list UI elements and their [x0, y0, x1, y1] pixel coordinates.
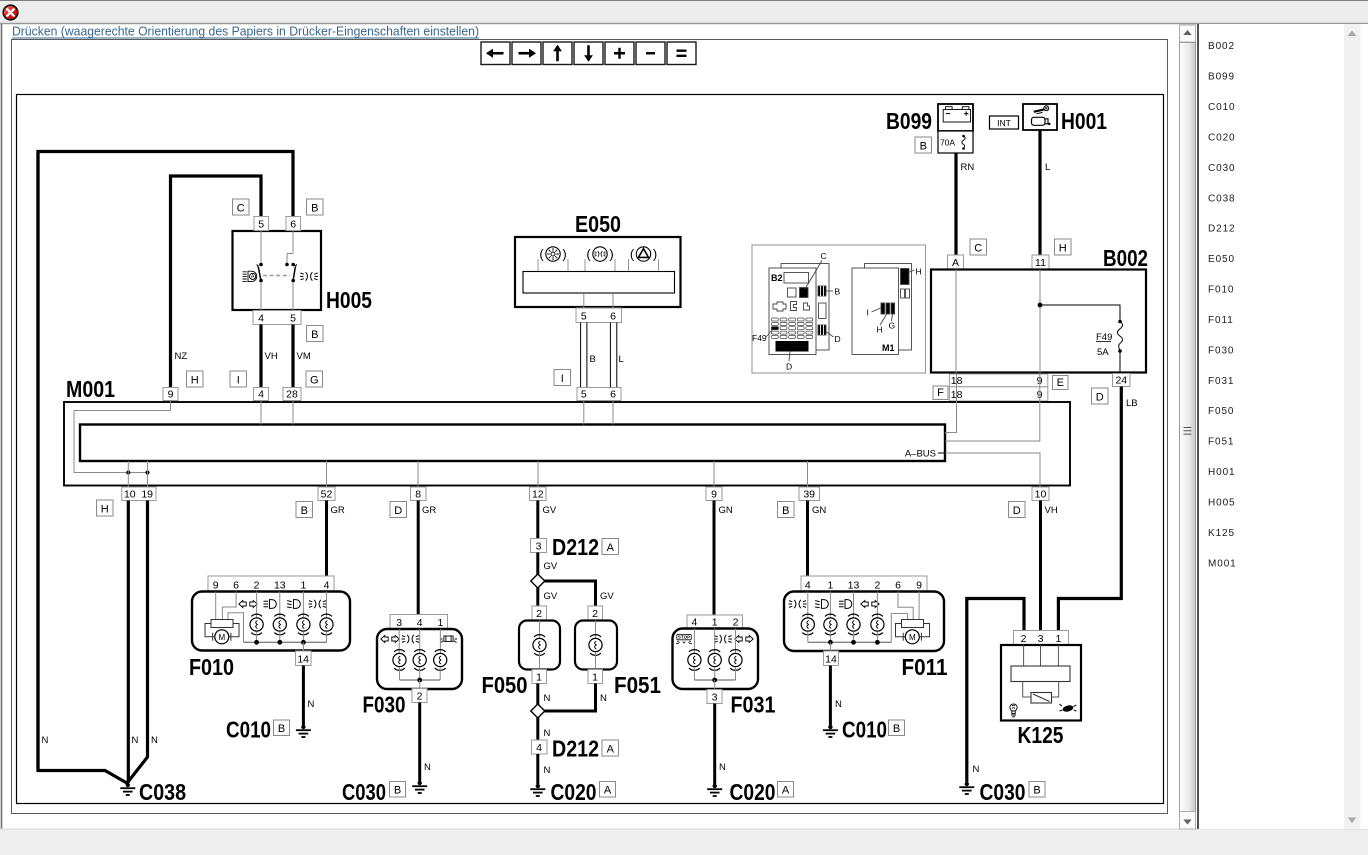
svg-text:B099: B099 — [1208, 72, 1235, 83]
D212 label (bottom) — [552, 736, 599, 762]
svg-text:14: 14 — [297, 654, 309, 666]
connector label I (M001 pins 5-6) — [554, 370, 571, 386]
svg-text:8: 8 — [415, 489, 421, 501]
F011 turn icon — [861, 601, 879, 608]
wire label L — [619, 354, 624, 365]
F031 turn icon — [735, 636, 753, 643]
wire L H001 to B002 pin 11 — [1038, 130, 1041, 255]
M001 wire bus to pin9c — [713, 461, 715, 487]
fuse F49 — [1096, 320, 1123, 373]
svg-text:C030: C030 — [342, 779, 386, 805]
F031 lamp 3 — [729, 650, 742, 671]
svg-text:5: 5 — [290, 313, 296, 325]
wire GR M001-52 to F010-4 — [325, 501, 328, 577]
svg-text:M: M — [909, 633, 916, 642]
wire label GV (F050) — [544, 591, 558, 602]
wire VM H005 pin5 to M001 pin28 — [291, 325, 294, 388]
B002 bottom pin row 18 9 — [949, 374, 1047, 387]
svg-text:B: B — [311, 329, 318, 341]
F011 lamp 1 — [801, 614, 814, 635]
F010 lamp 3 — [297, 614, 310, 635]
wire GR M001-8 to F030-4 — [417, 501, 420, 615]
wire label N (left) — [42, 735, 49, 746]
H005 contact dot c — [285, 263, 289, 267]
E050 lights icon — [538, 247, 568, 272]
svg-text:C: C — [237, 203, 245, 215]
wire GN M001-9 to F031-1 — [713, 501, 716, 616]
F011 pin row 4 1 13 2 6 9 — [801, 576, 927, 592]
svg-text:1: 1 — [437, 617, 443, 629]
D212 pin 4 — [532, 740, 548, 754]
E050 hazard icon — [629, 247, 659, 272]
ground C038 — [120, 783, 135, 795]
C030 label right — [980, 779, 1026, 805]
svg-text:D: D — [786, 362, 792, 372]
svg-text:C010: C010 — [1208, 102, 1236, 113]
wire LB B002-24 to K125-1 — [1058, 387, 1121, 631]
connector label B (C010 right) — [889, 720, 905, 736]
svg-text:H005: H005 — [326, 287, 372, 313]
svg-text:C030: C030 — [980, 779, 1026, 805]
wire label GV (F051) — [600, 591, 614, 602]
svg-text:4: 4 — [324, 580, 330, 592]
svg-text:LB: LB — [1126, 398, 1138, 409]
svg-text:N: N — [544, 765, 551, 776]
F030 lamp 2 — [413, 650, 426, 671]
K125 load icon — [1059, 704, 1076, 713]
F031 drop to pin3 — [714, 680, 716, 690]
F030 lamp 1 — [393, 650, 406, 671]
inset fuse grid — [752, 318, 813, 343]
svg-text:C010: C010 — [226, 717, 271, 743]
H005 contact dot e — [291, 279, 295, 283]
M001 wire pin28 to bus — [292, 401, 294, 425]
M001 wire bus to pin12 — [537, 461, 539, 487]
C030 label — [342, 779, 386, 805]
F010 common line — [244, 641, 327, 643]
svg-text:11: 11 — [1035, 257, 1046, 269]
connector label H (B002 pin 11) — [1055, 239, 1072, 255]
wire label NZ — [175, 351, 188, 362]
C020 label — [551, 779, 597, 805]
connector label C — [233, 199, 250, 215]
svg-text:D212: D212 — [1208, 224, 1236, 235]
svg-text:70A: 70A — [940, 138, 955, 148]
wire L (E050 6 to M001 6, hollow) — [610, 323, 616, 388]
svg-text:B002: B002 — [1103, 245, 1148, 271]
B002 internal wire 11-9 — [1039, 270, 1041, 374]
E050 pins 5 6 — [576, 308, 622, 323]
splice diamond (GV) — [531, 574, 545, 588]
wire B (E050 5 to M001 5, hollow) — [581, 323, 587, 388]
pictorial inset box — [752, 245, 926, 373]
wire GV M001-12 to D212-3 — [536, 501, 539, 539]
F011 levelling motor — [896, 620, 930, 644]
svg-text:6: 6 — [610, 389, 616, 401]
M001 wire abus to pin10 — [945, 453, 1040, 487]
F051 pin 1 — [588, 670, 603, 684]
F011 box — [784, 592, 944, 652]
D212 label (top) — [552, 534, 599, 560]
svg-text:B2: B2 — [771, 273, 783, 283]
F031 box — [673, 629, 759, 690]
M001 top pin row 18 9 — [949, 387, 1047, 401]
F010 box — [192, 592, 350, 651]
wire N M001-10 to C038 — [127, 501, 130, 784]
F031 pin 3 — [707, 690, 722, 704]
F030 lamp grounds — [400, 667, 441, 680]
svg-text:I: I — [867, 308, 869, 318]
D212 pin 3 — [531, 539, 547, 553]
connector label A (C020 right) — [778, 782, 794, 798]
F010 fog icon — [309, 600, 327, 608]
F050 lamp — [533, 635, 546, 656]
svg-text:D: D — [1096, 392, 1104, 404]
svg-text:M001: M001 — [66, 376, 115, 402]
svg-text:K125: K125 — [1208, 528, 1235, 539]
B002 label — [1103, 245, 1148, 271]
H005 switch box — [233, 231, 322, 310]
svg-text:B: B — [311, 203, 318, 215]
sidebar panel — [1198, 24, 1368, 829]
M001 pin 12 (bottom) — [530, 487, 547, 501]
wire RN B099 to B002 pin A — [954, 153, 957, 255]
H005 contact dot b — [259, 279, 263, 283]
svg-text:H: H — [916, 267, 922, 277]
wire label N (below splice) — [544, 728, 551, 739]
svg-text:C038: C038 — [1208, 193, 1236, 204]
wire label RN — [961, 162, 975, 173]
M001 pin 28 (top) — [283, 388, 301, 401]
wire label B — [590, 354, 596, 365]
svg-text:F030: F030 — [1208, 345, 1234, 356]
B002 pin 18/9 pass-through wires — [957, 374, 1040, 401]
B099 battery box — [938, 104, 973, 131]
F010 turn signal icon — [239, 601, 257, 608]
svg-text:F050: F050 — [482, 672, 528, 698]
svg-text:24: 24 — [1115, 375, 1127, 387]
svg-text:GR: GR — [422, 505, 436, 516]
K125 box — [1001, 645, 1081, 721]
F051 label — [614, 672, 661, 698]
connector label I (M001 pin4) — [230, 371, 247, 387]
svg-text:B: B — [278, 723, 285, 735]
svg-text:6: 6 — [895, 580, 901, 592]
sidebar scrollbar — [1344, 24, 1361, 829]
M001 wire pin18 to bus — [945, 401, 957, 433]
M001 wire pin5 to bus — [583, 401, 585, 425]
svg-text:13: 13 — [274, 580, 286, 592]
svg-text:C020: C020 — [551, 779, 597, 805]
svg-text:GN: GN — [812, 505, 826, 516]
H005 internal wire pin6 — [287, 231, 294, 311]
F030 common line — [400, 679, 441, 681]
F010 lamp grounds — [257, 632, 327, 643]
svg-text:F010: F010 — [189, 654, 234, 680]
svg-text:GN: GN — [719, 505, 733, 516]
svg-text:4: 4 — [805, 580, 811, 592]
E050 fog icon — [585, 247, 615, 272]
B099 fuse 70A box — [938, 131, 973, 153]
F030 lamp feeds — [399, 629, 440, 653]
svg-text:G: G — [310, 375, 319, 387]
E050 wire to pin 5 — [583, 293, 585, 308]
wire label N (C010) — [308, 699, 315, 710]
wire label VM — [297, 351, 311, 362]
wire label N (pin19) — [151, 735, 158, 746]
M001 wire pin9b to bus — [945, 401, 1040, 442]
E050 internal bus bar — [523, 272, 675, 294]
connector label B (C030) — [390, 782, 406, 798]
connector label B (pin 52) — [296, 502, 313, 518]
F010 pin row 9 6 2 13 1 4 — [208, 576, 334, 592]
F010 lamp 1 — [250, 614, 263, 635]
wire label N (C030 right) — [973, 764, 980, 775]
wire label GR (F010) — [331, 505, 345, 516]
svg-text:B002: B002 — [1208, 41, 1235, 52]
connector label B (B099) — [915, 137, 932, 153]
wire N M001-19 to C038 — [128, 501, 147, 782]
svg-text:1: 1 — [536, 672, 542, 684]
svg-text:H: H — [191, 375, 199, 387]
svg-text:A–BUS: A–BUS — [905, 449, 936, 460]
ground C030 — [412, 781, 427, 793]
connector label A (D212 bottom) — [602, 740, 619, 756]
close button (red X) — [3, 5, 18, 20]
svg-text:4: 4 — [536, 742, 542, 754]
wire GV D212 to splice — [536, 553, 539, 575]
F051 lamp ground — [595, 652, 597, 670]
svg-text:3: 3 — [396, 617, 402, 629]
F010 lamp 4 — [320, 614, 333, 635]
connector label C (B002 pin A) — [970, 239, 987, 255]
svg-text:H005: H005 — [1208, 498, 1236, 509]
svg-text:N: N — [151, 735, 158, 746]
svg-text:B: B — [782, 505, 789, 517]
wire label GV (top) — [543, 505, 557, 516]
M001 label — [66, 376, 115, 402]
svg-text:F051: F051 — [1208, 437, 1234, 448]
F011 lamp 3 — [847, 614, 860, 635]
svg-text:D: D — [835, 334, 841, 344]
M001 wire pin6 to bus — [612, 401, 614, 425]
F031 stop icon — [676, 634, 692, 643]
top title band — [0, 0, 1368, 24]
svg-text:B099: B099 — [886, 108, 932, 134]
F031 fog icon — [714, 635, 732, 643]
connector label H (pins 10/19) — [97, 500, 114, 516]
wire K125-2 to C030 ground — [967, 599, 1024, 783]
svg-text:5: 5 — [258, 219, 264, 231]
svg-text:F050: F050 — [1208, 406, 1234, 417]
svg-text:C: C — [974, 243, 982, 255]
wire label GV (below D212) — [544, 561, 558, 572]
svg-text:9: 9 — [711, 489, 717, 501]
connector label B (C030 right) — [1029, 782, 1045, 798]
B002 junction dot — [1038, 303, 1043, 308]
inset fuse box B2 — [769, 251, 829, 355]
connector label D (pin 24) — [1092, 388, 1109, 404]
svg-text:1: 1 — [827, 580, 833, 592]
diagram frame — [17, 95, 1164, 804]
svg-text:9: 9 — [168, 389, 174, 401]
svg-text:5A: 5A — [1097, 347, 1109, 358]
svg-text:B: B — [590, 354, 596, 365]
svg-text:D: D — [1013, 505, 1021, 517]
M001 inner bus bar — [80, 425, 945, 462]
F031 lamp 1 — [688, 650, 701, 671]
svg-text:): ) — [562, 247, 566, 262]
F010 levelling motor — [205, 620, 239, 644]
F010 drop to pin14 — [302, 642, 304, 651]
H005 mechanical link dashed — [263, 275, 290, 277]
svg-text:GV: GV — [544, 561, 558, 572]
svg-text:1: 1 — [712, 617, 718, 629]
svg-text:N: N — [973, 764, 980, 775]
svg-text:2: 2 — [417, 691, 423, 703]
toolbar button minus — [636, 42, 665, 65]
svg-text:A: A — [952, 257, 959, 269]
svg-text:2: 2 — [536, 608, 542, 620]
M001 outer box — [64, 402, 1070, 486]
inset bottom connector — [776, 341, 809, 372]
svg-text:2: 2 — [254, 580, 260, 592]
F010 dot 2 — [277, 640, 282, 645]
svg-text:2: 2 — [733, 617, 739, 629]
svg-text:K125: K125 — [1018, 722, 1064, 748]
M001 pin 8 (bottom) — [411, 487, 427, 501]
svg-text:4: 4 — [691, 617, 697, 629]
svg-text:GV: GV — [543, 505, 557, 516]
F011 wire pin6 to motor — [898, 592, 913, 620]
svg-text:4: 4 — [258, 313, 264, 325]
svg-text:2: 2 — [874, 580, 880, 592]
svg-text:M001: M001 — [1208, 558, 1237, 569]
svg-text:H: H — [877, 325, 883, 335]
svg-text:F011: F011 — [1208, 315, 1234, 326]
ground C030 right — [959, 782, 974, 794]
svg-text:5: 5 — [581, 311, 587, 323]
M001 pin 9 (top) — [163, 388, 178, 401]
wire N F050-1 to splice — [536, 684, 539, 705]
F010 parking light icon — [264, 600, 277, 609]
F010 lamp 2 — [273, 614, 286, 635]
connector label A (D212 top) — [602, 539, 619, 555]
ground C020 right — [707, 784, 722, 796]
C010 label — [226, 717, 271, 743]
svg-text:VM: VM — [297, 351, 311, 362]
F050 pin 1 — [532, 670, 547, 684]
F031 lamp grounds — [694, 667, 735, 680]
svg-text:1: 1 — [300, 580, 306, 592]
window left border — [1, 24, 3, 829]
ground C010 right — [823, 725, 838, 737]
F010 dot 1 — [254, 640, 259, 645]
bottom gray band — [0, 829, 1368, 855]
H005 contact dot d — [291, 263, 295, 267]
A-BUS label — [905, 449, 945, 460]
F010 dot 3 — [301, 640, 306, 645]
F051 lamp feed — [595, 621, 597, 639]
svg-text:E050: E050 — [575, 211, 621, 237]
F030 lamp 3 — [434, 650, 447, 671]
svg-text:C038: C038 — [139, 779, 186, 805]
F030 dot — [417, 678, 422, 683]
wire H005 pin 5 to M001 pin 9 — [171, 176, 262, 388]
svg-text:13: 13 — [848, 580, 860, 592]
F050 lamp feed — [539, 621, 541, 639]
svg-text:2: 2 — [592, 608, 598, 620]
wire GV splice to F050-2 — [536, 588, 539, 607]
svg-text:1: 1 — [592, 672, 598, 684]
wire N splice to D212-4 — [536, 718, 539, 741]
svg-text:F010: F010 — [1208, 285, 1234, 296]
inset side connectors — [818, 286, 841, 344]
wire label N (F051) — [600, 693, 607, 704]
svg-text:3: 3 — [712, 692, 718, 704]
connector label B (pin 39) — [778, 502, 795, 518]
svg-text:GR: GR — [331, 505, 345, 516]
svg-text:19: 19 — [141, 489, 153, 501]
junction dot pin19 — [146, 471, 150, 475]
component list — [1208, 41, 1237, 569]
K125 bulb icon — [1010, 704, 1017, 717]
F050 box — [519, 621, 560, 670]
H001 label — [1061, 108, 1107, 134]
svg-text:VH: VH — [1045, 505, 1058, 516]
F030 turn icon — [381, 636, 399, 643]
F010 pin 14 — [296, 651, 312, 666]
svg-text:N: N — [132, 735, 139, 746]
svg-text:H001: H001 — [1061, 108, 1107, 134]
svg-text:3: 3 — [1038, 633, 1044, 645]
svg-text:NZ: NZ — [175, 351, 188, 362]
connector label D (pin 8) — [390, 502, 407, 518]
wire label N (C020) — [544, 765, 551, 776]
wire label N (C010 right) — [835, 699, 842, 710]
M001 wire bus to pin19 — [147, 461, 149, 487]
F051 lamp — [589, 635, 602, 656]
M001 wire pin4 to bus — [260, 401, 262, 425]
svg-text:L: L — [1045, 162, 1050, 173]
B099 label — [886, 108, 932, 134]
F031 dot — [712, 678, 717, 683]
svg-text:12: 12 — [532, 489, 544, 501]
F010 lamp feeds — [257, 592, 327, 618]
F031 lamp 2 — [708, 650, 721, 671]
wire label N (C030) — [424, 762, 431, 773]
toolbar button left — [481, 42, 510, 65]
svg-text:B: B — [394, 785, 401, 797]
F010 low beam icon — [287, 600, 300, 609]
svg-text:VH: VH — [265, 351, 278, 362]
wire label N (pin10) — [132, 735, 139, 746]
F011 common line — [808, 641, 892, 643]
H001 icon box (cigarette lighter) — [1023, 104, 1057, 130]
wire label N (F050) — [544, 693, 551, 704]
connector label B (H005 top) — [307, 199, 324, 215]
svg-text:I: I — [237, 375, 240, 387]
svg-text:E: E — [1057, 377, 1064, 389]
svg-text:M1: M1 — [882, 343, 895, 353]
wire N F031-3 to C020b — [713, 704, 716, 785]
svg-text:): ) — [609, 247, 613, 262]
svg-text:H: H — [101, 504, 109, 516]
svg-text:F030: F030 — [363, 692, 406, 718]
B002 pin 24 — [1113, 374, 1131, 387]
wire label GN (F031) — [719, 505, 733, 516]
printer hint link — [12, 25, 479, 39]
